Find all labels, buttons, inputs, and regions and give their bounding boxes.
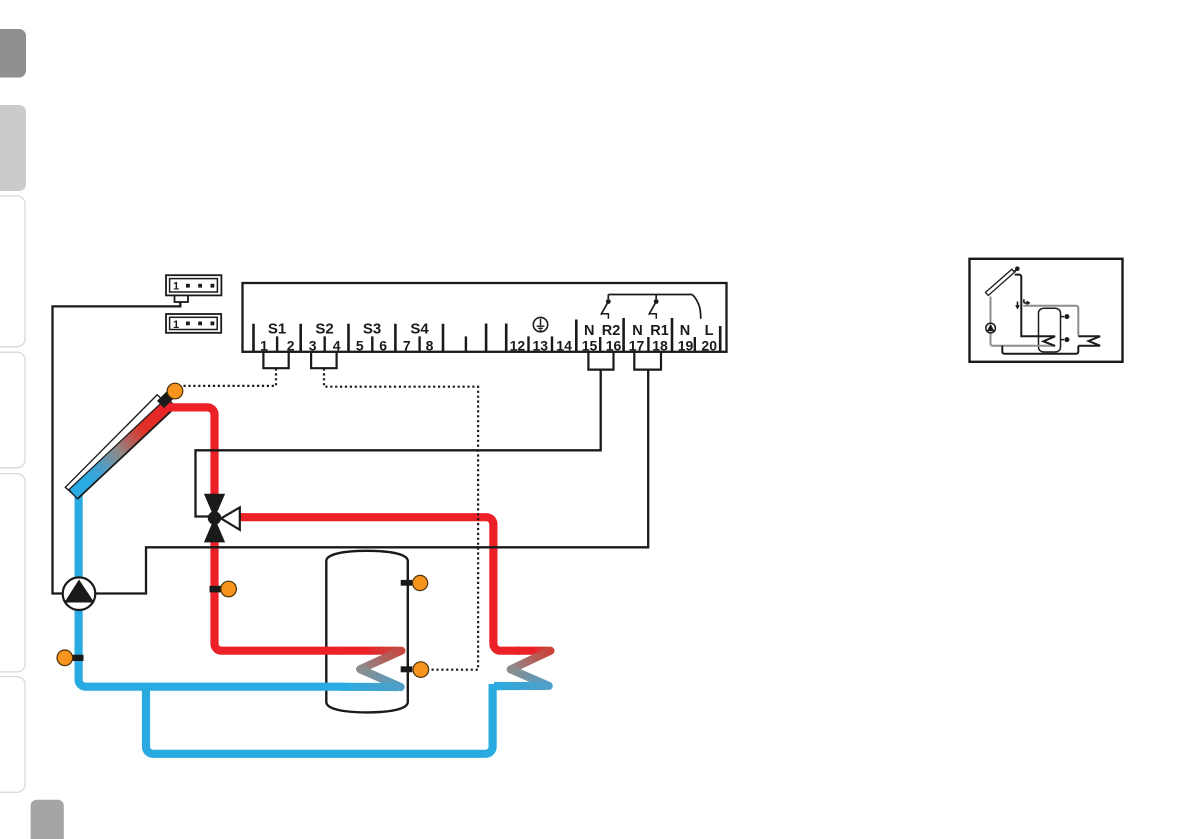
svg-text:19: 19 — [678, 337, 694, 353]
mini collector sensor dot — [1014, 270, 1016, 273]
bracket under terminals 3-4 — [311, 352, 337, 368]
svg-text:S2: S2 — [315, 321, 333, 338]
sidebar tab dark — [0, 29, 26, 78]
connector block 1 — [166, 275, 221, 295]
sidebar outline tab 1 — [0, 196, 25, 347]
tank bottom sensor S2 — [401, 666, 413, 672]
mini tank sensor dots — [1061, 316, 1064, 318]
pump — [63, 577, 96, 610]
svg-text:17: 17 — [629, 337, 645, 353]
terminal dividers tall — [254, 318, 721, 352]
collector panel outline — [65, 395, 173, 499]
red pipe valve to right exchanger — [236, 517, 521, 651]
bottom gray square — [31, 800, 64, 839]
ground symbol — [533, 317, 547, 331]
mini gray tank loop pipe — [1023, 306, 1078, 336]
mini dark flow pipe with tank coil — [1015, 275, 1055, 346]
mini tank — [1039, 308, 1061, 352]
svg-text:S4: S4 — [410, 321, 429, 338]
sidebar outline tab 4 — [0, 677, 25, 793]
svg-text:8: 8 — [426, 337, 434, 353]
terminal numbers 12-20 — [510, 337, 718, 353]
svg-text:N: N — [680, 323, 690, 339]
mini collector — [985, 269, 1014, 295]
svg-text:13: 13 — [533, 337, 549, 353]
svg-text:2: 2 — [287, 337, 295, 353]
red pipe collector to valve — [168, 407, 215, 497]
bracket under terminals 1-2 — [263, 352, 288, 368]
mini flow arrow down — [1017, 302, 1019, 307]
svg-text:20: 20 — [701, 337, 717, 353]
svg-text:S3: S3 — [363, 321, 381, 338]
svg-text:15: 15 — [582, 337, 598, 353]
wire terminals 17/18 to pump — [96, 370, 649, 594]
collector gradient absorber — [69, 398, 176, 499]
connector block 2 — [166, 314, 221, 333]
svg-text:1: 1 — [173, 281, 179, 293]
dotted sensor lead S1 — [183, 368, 276, 386]
mini pump — [986, 323, 996, 333]
svg-text:S1: S1 — [268, 321, 286, 338]
svg-text:N: N — [632, 323, 642, 339]
svg-text:3: 3 — [309, 337, 317, 353]
svg-text:L: L — [705, 323, 714, 339]
mini system diagram frame — [970, 259, 1123, 362]
sidebar tab light — [0, 105, 26, 191]
relay R1 switch — [649, 295, 701, 319]
blue pipe from collector through pump to tank coil — [79, 487, 345, 687]
svg-text:R2: R2 — [602, 323, 621, 339]
sidebar outline tab 3 — [0, 474, 25, 672]
3-way valve — [204, 494, 225, 519]
mini gray collector loop pipe — [991, 297, 1056, 346]
flow pipe sensor — [210, 586, 223, 593]
sidebar outline tab 2 — [0, 352, 25, 468]
svg-text:N: N — [584, 323, 594, 339]
svg-text:1: 1 — [260, 337, 268, 353]
svg-text:1: 1 — [173, 319, 179, 331]
right exchanger gradient segments — [516, 647, 549, 655]
mini flow arrow right — [1024, 299, 1028, 303]
mini right heat exchanger — [1078, 336, 1100, 345]
svg-text:5: 5 — [356, 337, 364, 353]
controller terminal strip box — [243, 283, 727, 352]
blue bottom loop pipe — [146, 683, 493, 754]
bracket under terminals 17-18 — [634, 352, 661, 370]
return pipe sensor — [72, 655, 84, 661]
dotted sensor lead S2 — [324, 368, 478, 669]
collector sensor S1 — [161, 395, 171, 405]
terminal numbers 1-8 — [260, 337, 434, 353]
svg-text:4: 4 — [333, 337, 341, 353]
wire connector block 1 to pump — [53, 302, 181, 593]
connector block 1 plug — [175, 295, 189, 302]
relay R2 switch — [601, 295, 692, 319]
terminal dividers short — [277, 336, 695, 351]
tank coil gradient segments — [340, 647, 400, 655]
bracket under terminals 15-16 — [588, 352, 613, 370]
tank top sensor — [401, 580, 413, 586]
labels N R2 N R1 N L — [584, 323, 714, 339]
svg-text:18: 18 — [652, 337, 668, 353]
mini bottom return pipe — [1002, 346, 1078, 354]
svg-text:6: 6 — [379, 337, 387, 353]
wire terminals 15/16 to valve — [196, 370, 601, 517]
storage tank — [326, 551, 408, 713]
svg-text:7: 7 — [403, 337, 411, 353]
svg-text:14: 14 — [556, 337, 572, 353]
svg-text:R1: R1 — [650, 323, 669, 339]
svg-text:16: 16 — [606, 337, 622, 353]
svg-text:12: 12 — [510, 337, 526, 353]
red pipe valve down to tank coil — [214, 539, 342, 651]
